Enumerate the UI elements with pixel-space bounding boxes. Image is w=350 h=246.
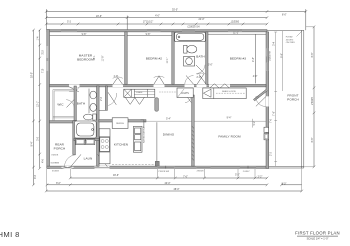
svg-text:REFRIG: REFRIG [116, 123, 124, 125]
master bedroom interior dim line [50, 34, 125, 36]
master toilet [84, 114, 97, 120]
left dimension line inner [38, 29, 45, 170]
bedroom2 door opening [154, 84, 165, 87]
window W1 top wall master bedroom [61, 30, 77, 33]
svg-text:30'-6": 30'-6" [113, 175, 119, 177]
bedroom3 door opening [197, 84, 207, 87]
kitchen range [100, 137, 110, 151]
hall closet row pantry/linen [124, 89, 155, 97]
svg-text:8'-8": 8'-8" [312, 53, 314, 58]
svg-text:48'-0": 48'-0" [174, 189, 180, 191]
svg-text:12'-1": 12'-1" [38, 101, 40, 107]
svg-text:FIRST FLOOR PLAN: FIRST FLOOR PLAN [295, 231, 340, 236]
rear porch right wall [73, 121, 76, 155]
svg-text:FAMILY ROOM: FAMILY ROOM [218, 135, 241, 139]
svg-text:4'-0": 4'-0" [155, 15, 160, 17]
family room angled corner wall [253, 89, 267, 101]
exterior wall bottom [47, 166, 269, 168]
wic door swing [66, 100, 74, 108]
top dimension line tier1 [45, 9, 307, 30]
porch interior dim line vertical [274, 32, 278, 166]
hall cased opening dashed header [159, 91, 177, 93]
svg-text:24'-0": 24'-0" [199, 19, 205, 21]
exterior wall top [47, 30, 267, 32]
hall closet bottom line [99, 109, 106, 111]
dining/family wall [192, 95, 195, 166]
svg-text:7'10: 7'10 [43, 68, 45, 73]
svg-text:LINEN: LINEN [136, 92, 143, 94]
foyer closet door opening [209, 84, 230, 87]
svg-text:BEDRM #2: BEDRM #2 [146, 56, 162, 60]
kitchen dining divider line [156, 122, 158, 161]
hall closet wall stub [105, 86, 107, 110]
left dimension line outer [31, 29, 34, 186]
dining ceiling break line [144, 120, 266, 122]
dining/family wall hatch [192, 126, 195, 161]
window W8 bottom wall family room left [196, 166, 210, 169]
svg-text:45 DEG: 45 DEG [286, 39, 294, 41]
svg-text:1'-0": 1'-0" [114, 76, 119, 78]
svg-text:ON 2X8S: ON 2X8S [286, 42, 295, 44]
bottom window labels [52, 171, 250, 174]
svg-text:9'-8": 9'-8" [253, 57, 255, 62]
front door swing foyer [256, 97, 266, 107]
rear entry door opening bottom wall [95, 166, 110, 169]
foyer closet with shelf [203, 88, 246, 99]
front porch roof edge top [267, 29, 304, 31]
top dimension line tier3 [45, 21, 268, 28]
front porch bottom edge [269, 166, 304, 168]
hall door swing into bath hallway [108, 92, 117, 105]
wic shelving lines [53, 90, 74, 121]
window W4 top wall bedroom3 [228, 30, 242, 33]
hall bath vanity [184, 56, 195, 66]
svg-text:4'-0": 4'-0" [253, 76, 258, 78]
exterior wall left [47, 30, 50, 169]
svg-text:(2)3050 SH: (2)3050 SH [188, 26, 200, 28]
svg-text:PORCH: PORCH [287, 97, 299, 101]
master bedroom door swing [113, 77, 123, 85]
svg-text:2'8X6'8: 2'8X6'8 [197, 171, 205, 173]
hall bath door opening [185, 84, 195, 87]
master bedroom door swing [69, 87, 79, 92]
tub alcove bottom wall [74, 138, 99, 140]
bottom dimension tier1 [69, 169, 268, 179]
foyer closet double doors [209, 84, 230, 89]
kitchen left counter [99, 129, 110, 164]
svg-text:BEDROOM: BEDROOM [77, 57, 94, 61]
hall closet double doors swing [126, 98, 145, 105]
masterbath/kitchen wall [97, 86, 100, 166]
fireplace media niche right wall [264, 127, 269, 140]
svg-text:2'-2": 2'-2" [258, 177, 263, 179]
kitchen island with sink [133, 126, 142, 152]
top dimension line tier2 [45, 15, 268, 29]
svg-text:2-9X67: 2-9X67 [243, 171, 251, 173]
wic bottom / rear porch top wall [50, 121, 77, 123]
bedroom2 door swing [154, 76, 165, 85]
svg-text:7'-6": 7'-6" [274, 111, 276, 116]
bottom dimension tier3 [45, 169, 303, 193]
bedroom3 vertical dim line [253, 34, 255, 83]
window W7 bottom wall dining [157, 166, 174, 169]
hall small dim labels [114, 65, 258, 79]
dryer [86, 139, 95, 145]
svg-text:2'0X6'8: 2'0X6'8 [312, 96, 314, 104]
svg-text:SCALE 1/4" = 1'-0": SCALE 1/4" = 1'-0" [307, 237, 329, 241]
coats closet [177, 88, 193, 98]
right dimension line [304, 26, 315, 169]
bedroom3 interior dim line [208, 33, 266, 35]
svg-text:BATH: BATH [77, 102, 85, 106]
hall/dining wall stub [155, 98, 159, 111]
svg-text:9'-8": 9'-8" [82, 34, 87, 36]
window W2 top wall bedroom2 [147, 30, 161, 33]
svg-text:WIC: WIC [57, 103, 64, 107]
column post kitchen/dining [155, 161, 159, 166]
svg-text:SCREEN: SCREEN [51, 163, 60, 165]
window W5 left wall master bedroom upper [47, 46, 50, 58]
washer [76, 139, 85, 145]
hall bath door swing [185, 76, 194, 85]
master bedroom door opening in middle wall [113, 84, 124, 87]
porch door note text [51, 155, 60, 165]
svg-text:2'9X6'8 SW: 2'9X6'8 SW [158, 171, 169, 173]
svg-text:LAUN: LAUN [84, 157, 93, 161]
svg-text:35'-0": 35'-0" [172, 10, 178, 12]
interior wall hallbath left [172, 32, 174, 84]
family room dim stub line [253, 119, 257, 128]
window W6 left wall master bedroom lower [47, 61, 50, 71]
svg-text:14'-1: 14'-1 [94, 55, 96, 61]
front door opening right wall [266, 96, 269, 106]
svg-text:(2)3050: (2)3050 [231, 21, 240, 23]
svg-text:11'-2": 11'-2" [233, 33, 239, 35]
master garden tub [74, 121, 96, 138]
svg-text:30'-0": 30'-0" [31, 72, 33, 78]
svg-text:8'-4": 8'-4" [31, 142, 33, 147]
rear porch door opening bottom wall [62, 166, 74, 169]
title first floor plan [295, 231, 340, 241]
svg-text:5'-0": 5'-0" [208, 65, 213, 67]
window W10 right wall bedroom3 upper [266, 48, 269, 56]
svg-text:8'-0": 8'-0" [56, 183, 61, 185]
front porch right edge double line [302, 30, 304, 168]
svg-text:45°: 45° [256, 97, 259, 99]
master vanity counter [88, 89, 90, 114]
porch floor note with leader [286, 32, 302, 45]
bedroom3 door swing [197, 73, 207, 84]
svg-text:9'-4": 9'-4" [227, 117, 232, 119]
svg-text:BEDRM #3: BEDRM #3 [230, 56, 246, 60]
hall bath tub [175, 32, 206, 41]
porch inner vertical line upper [281, 31, 283, 91]
kitchen refrigerator [112, 118, 128, 129]
window W3 top wall bath tub [182, 30, 195, 33]
kitchen bar dashed overhang [112, 164, 158, 166]
svg-text:17'10 1/2": 17'10 1/2" [143, 21, 154, 23]
interior middle wall horizontal [50, 84, 266, 87]
svg-text:7'-6": 7'-6" [183, 177, 188, 179]
master bedroom door opening [69, 84, 80, 87]
svg-text:5'-4": 5'-4" [166, 118, 171, 120]
master vanity sink 1 [90, 91, 97, 99]
bottom dimension tier2 [46, 183, 302, 186]
wic/masterbath dividing wall [74, 86, 76, 121]
svg-text:3'0X6'8: 3'0X6'8 [51, 155, 59, 157]
svg-text:PORCH: PORCH [54, 146, 66, 150]
window W9 bottom wall family room right [240, 166, 256, 169]
svg-text:BATH: BATH [196, 54, 204, 58]
exterior wall right (house front) [266, 32, 269, 169]
kitchen top wall [99, 120, 146, 122]
front porch label [287, 94, 299, 102]
svg-text:9'-8": 9'-8" [146, 34, 151, 36]
svg-text:SHELF & ROD: SHELF & ROD [222, 91, 236, 93]
svg-text:FLR AT: FLR AT [286, 36, 294, 39]
hall bath inner door swing [196, 65, 205, 74]
svg-text:8'-0": 8'-0" [282, 15, 287, 17]
svg-text:20'-6": 20'-6" [96, 16, 102, 18]
svg-text:8'-8": 8'-8" [312, 138, 314, 143]
svg-text:40'-0": 40'-0" [165, 183, 171, 185]
svg-text:11'-8": 11'-8" [103, 55, 105, 61]
hall bath toilet [184, 45, 197, 53]
dining door swing from hall [185, 96, 191, 103]
window W11 right wall bedroom3 lower [266, 63, 269, 71]
bar end cap [141, 120, 144, 128]
svg-text:5'-2": 5'-2" [235, 175, 240, 177]
master bedroom label [77, 54, 94, 62]
bedroom2 interior dim line [127, 34, 172, 36]
svg-text:11'-1": 11'-1" [167, 57, 169, 63]
master vanity sink 2 [90, 104, 97, 112]
svg-text:HMI 8: HMI 8 [0, 230, 20, 239]
porch to laundry door swing [65, 154, 82, 166]
svg-text:DINING: DINING [163, 133, 175, 137]
svg-text:2'-0": 2'-0" [197, 77, 202, 79]
rear porch label [54, 143, 66, 151]
interior wall master/bedroom2 [125, 32, 128, 84]
svg-text:RAISED BARTOP: RAISED BARTOP [142, 126, 145, 143]
rear entry door swing [95, 154, 108, 166]
svg-text:3'10: 3'10 [43, 50, 45, 55]
svg-text:KITCHEN: KITCHEN [114, 143, 128, 147]
svg-text:(2)3057SH: (2)3057SH [270, 50, 272, 61]
interior wall hallbath right / bedroom3 left [206, 32, 208, 84]
svg-text:COATS: COATS [181, 92, 189, 95]
svg-text:3'0X6'8: 3'0X6'8 [52, 171, 60, 173]
